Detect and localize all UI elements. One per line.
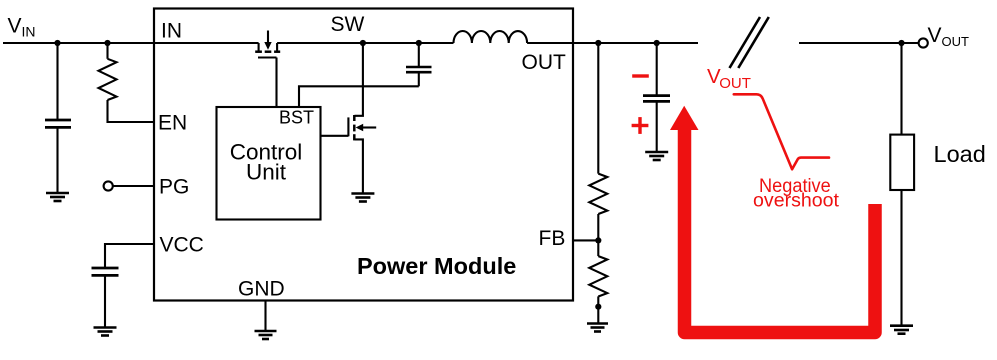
inductor L1 bbox=[454, 31, 528, 43]
transistor Q1 source tick bbox=[258, 43, 260, 52]
resistor R_EN zigzag bbox=[99, 59, 117, 100]
node VIN-REN bbox=[104, 40, 110, 46]
svg-text:Unit: Unit bbox=[246, 160, 287, 185]
node R2 ground bbox=[595, 304, 601, 310]
svg-text:Power Module: Power Module bbox=[357, 253, 516, 279]
node OUT-COUT bbox=[654, 40, 660, 46]
transistor Q2 channel segments bbox=[353, 115, 356, 140]
svg-text:VCC: VCC bbox=[160, 234, 204, 257]
svg-text:VIN: VIN bbox=[8, 15, 36, 40]
capacitor C_IN plates bbox=[45, 120, 71, 127]
capacitor C_OUT minus sign bbox=[632, 74, 649, 77]
transistor Q2 body arrowhead bbox=[356, 124, 364, 131]
svg-text:EN: EN bbox=[158, 112, 187, 135]
wire R2 bottom lead bbox=[597, 296, 599, 322]
node OUT-FB bbox=[595, 40, 601, 46]
wire R_EN to EN pin bbox=[108, 100, 155, 122]
transistor Q1 drain tick bbox=[276, 43, 278, 52]
svg-text:FB: FB bbox=[539, 227, 566, 250]
power module box bbox=[154, 9, 573, 301]
transistor Q2 drain lead bbox=[355, 43, 363, 116]
wire VOUT rail after break bbox=[799, 42, 918, 44]
capacitor C_IN bottom lead bbox=[56, 127, 58, 192]
svg-text:VOUT: VOUT bbox=[707, 65, 751, 92]
node VIN-C1 bbox=[54, 40, 60, 46]
wire OUT rail bbox=[527, 42, 698, 44]
transistor Q1 arrow stem bbox=[267, 31, 269, 44]
capacitor C_OUT plates bbox=[643, 96, 670, 102]
control unit U1 box bbox=[217, 107, 321, 220]
ground G1 (input cap) bbox=[46, 193, 69, 201]
red waveform bbox=[734, 94, 829, 169]
red arrowhead bbox=[670, 106, 699, 130]
wire GND pin stem bbox=[264, 300, 266, 331]
svg-text:OUT: OUT bbox=[522, 51, 567, 74]
resistor R1 zigzag bbox=[589, 174, 607, 214]
red overshoot loop path bbox=[685, 124, 876, 333]
ground G6 (output cap) bbox=[645, 152, 668, 160]
wire control unit to Q2 gate bbox=[321, 135, 349, 137]
transistor Q2 gate bar bbox=[347, 117, 349, 136]
ground G2 (VCC cap) bbox=[94, 328, 117, 336]
capacitor C_BST top lead bbox=[418, 43, 420, 67]
wire FB node to R2 bbox=[597, 240, 599, 256]
ground G5 (R2 bottom) bbox=[587, 324, 608, 332]
terminal PG open circle bbox=[104, 181, 113, 190]
capacitor C_OUT plus sign bbox=[632, 117, 649, 134]
svg-text:PG: PG bbox=[159, 176, 189, 199]
resistor R2 zigzag bbox=[589, 256, 607, 296]
wire PG pin bbox=[113, 185, 154, 187]
wire output cap top lead bbox=[656, 43, 658, 95]
svg-text:VOUT: VOUT bbox=[928, 24, 970, 49]
ground G7 (load) bbox=[890, 326, 913, 334]
wire load to ground bbox=[900, 190, 902, 326]
transistor Q1 channel segments bbox=[255, 50, 280, 53]
wire BST from control unit top bbox=[299, 86, 419, 107]
node SW-Q2 bbox=[360, 40, 366, 46]
wire VOUT node to load bbox=[900, 43, 902, 135]
svg-text:IN: IN bbox=[161, 20, 182, 43]
node FB divider bbox=[595, 237, 601, 243]
node SW-CBST bbox=[416, 40, 422, 46]
transistor Q2 source lead bbox=[355, 139, 363, 193]
wire Q1 gate to control unit bbox=[275, 58, 277, 108]
capacitor C_BST plates bbox=[406, 67, 432, 72]
svg-text:overshoot: overshoot bbox=[753, 190, 840, 211]
resistor R_EN top lead bbox=[106, 43, 108, 59]
svg-text:Load: Load bbox=[934, 141, 986, 167]
svg-text:SW: SW bbox=[331, 13, 365, 36]
transistor Q2 body line bbox=[362, 126, 376, 128]
wire FB pin bbox=[573, 239, 598, 241]
wire SW rail bbox=[277, 42, 453, 44]
svg-text:GND: GND bbox=[238, 278, 285, 301]
wire VIN input rail bbox=[3, 42, 259, 44]
terminal VOUT open circle bbox=[919, 38, 928, 47]
transistor Q1 gate bar bbox=[258, 56, 277, 58]
ground G4 (GND pin) bbox=[255, 331, 277, 339]
node VOUT-load bbox=[898, 40, 904, 46]
wire input cap top lead bbox=[56, 43, 58, 120]
wire R1 to FB node bbox=[597, 214, 599, 240]
break symbol double slash bbox=[730, 17, 769, 68]
load resistor box bbox=[890, 135, 914, 190]
capacitor C_VCC plates bbox=[92, 268, 119, 275]
svg-text:BST: BST bbox=[279, 108, 314, 128]
ground G3 (Q2 source) bbox=[351, 194, 374, 202]
capacitor C_VCC bottom lead bbox=[104, 275, 106, 327]
capacitor C_BST bottom lead bbox=[418, 72, 420, 86]
transistor Q1 arrowhead bbox=[264, 42, 271, 50]
wire FB node drop bbox=[597, 43, 599, 174]
capacitor C_OUT bottom lead bbox=[656, 101, 658, 151]
wire VCC pin bbox=[105, 244, 154, 268]
